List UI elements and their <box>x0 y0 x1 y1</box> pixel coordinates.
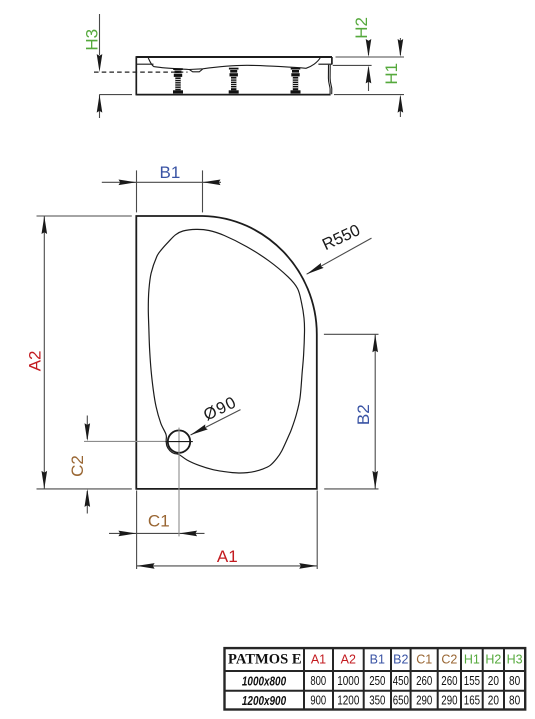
side view rim right face <box>331 57 333 64</box>
leg 1 <box>173 68 183 93</box>
dimension A1 <box>137 491 318 570</box>
svg-text:80: 80 <box>509 694 520 708</box>
svg-text:290: 290 <box>441 694 457 708</box>
drain circle <box>165 428 193 537</box>
svg-text:B2: B2 <box>354 404 373 425</box>
svg-text:80: 80 <box>509 674 520 688</box>
side view legs <box>173 68 301 94</box>
svg-text:H1: H1 <box>382 63 401 85</box>
svg-text:PATMOS E: PATMOS E <box>228 651 302 667</box>
tray outer outline <box>136 216 316 489</box>
table inner vertical lines <box>304 648 504 709</box>
svg-text:250: 250 <box>369 674 385 688</box>
dimension A2 <box>25 216 131 489</box>
dimension H1 <box>334 38 404 117</box>
svg-text:H2: H2 <box>352 17 371 39</box>
dimension C2 <box>68 416 165 514</box>
svg-text:290: 290 <box>416 694 432 708</box>
svg-text:C1: C1 <box>148 512 170 531</box>
svg-text:B1: B1 <box>160 163 181 182</box>
svg-text:1200x900: 1200x900 <box>242 693 287 708</box>
side view left rim lip underside <box>136 63 153 65</box>
svg-text:B2: B2 <box>393 653 408 667</box>
side view tray outer panel: top edge <box>136 56 332 58</box>
svg-text:260: 260 <box>416 674 432 688</box>
radius label R550 <box>307 221 372 274</box>
svg-text:450: 450 <box>393 674 409 688</box>
svg-text:C2: C2 <box>441 653 457 667</box>
svg-text:B1: B1 <box>370 653 385 667</box>
table inner horizontal lines <box>225 671 526 691</box>
drain center line vertical <box>178 428 180 537</box>
svg-text:1200: 1200 <box>337 694 359 708</box>
svg-text:350: 350 <box>369 694 385 708</box>
svg-text:900: 900 <box>310 694 326 708</box>
dashed center line <box>94 71 188 73</box>
dimension B2 <box>324 334 379 489</box>
side view tray bottom edge <box>136 94 330 96</box>
side view drain recess dip <box>189 69 203 72</box>
svg-text:650: 650 <box>393 694 409 708</box>
leg 3 <box>291 68 301 94</box>
svg-text:A2: A2 <box>25 351 44 372</box>
svg-text:A2: A2 <box>341 653 356 667</box>
tray inner basin outline <box>148 229 304 473</box>
svg-text:H3: H3 <box>82 29 101 51</box>
side view apron double line <box>328 65 330 94</box>
svg-text:165: 165 <box>464 694 480 708</box>
svg-text:H1: H1 <box>464 653 480 667</box>
svg-text:C1: C1 <box>416 653 432 667</box>
svg-text:A1: A1 <box>217 547 238 566</box>
svg-text:20: 20 <box>488 674 499 688</box>
dimension C1 <box>109 512 205 537</box>
svg-text:20: 20 <box>488 694 499 708</box>
svg-text:H2: H2 <box>485 653 501 667</box>
svg-text:A1: A1 <box>311 653 326 667</box>
svg-text:1000x800: 1000x800 <box>242 673 287 688</box>
leg 2 <box>229 68 239 94</box>
svg-text:C2: C2 <box>68 455 87 477</box>
svg-text:1000: 1000 <box>337 674 359 688</box>
diameter label Ø90 <box>191 393 241 435</box>
dimension B1 <box>102 163 221 213</box>
dimension H3 <box>82 14 132 118</box>
svg-text:H3: H3 <box>507 653 523 667</box>
side view rim lip underside <box>318 63 332 65</box>
svg-text:155: 155 <box>464 674 480 688</box>
side view basin interior profile <box>148 57 321 70</box>
table outer border <box>225 648 526 709</box>
side view tray left edge <box>135 56 137 95</box>
dimension H2 <box>333 17 372 91</box>
svg-text:800: 800 <box>310 674 326 688</box>
svg-text:260: 260 <box>441 674 457 688</box>
